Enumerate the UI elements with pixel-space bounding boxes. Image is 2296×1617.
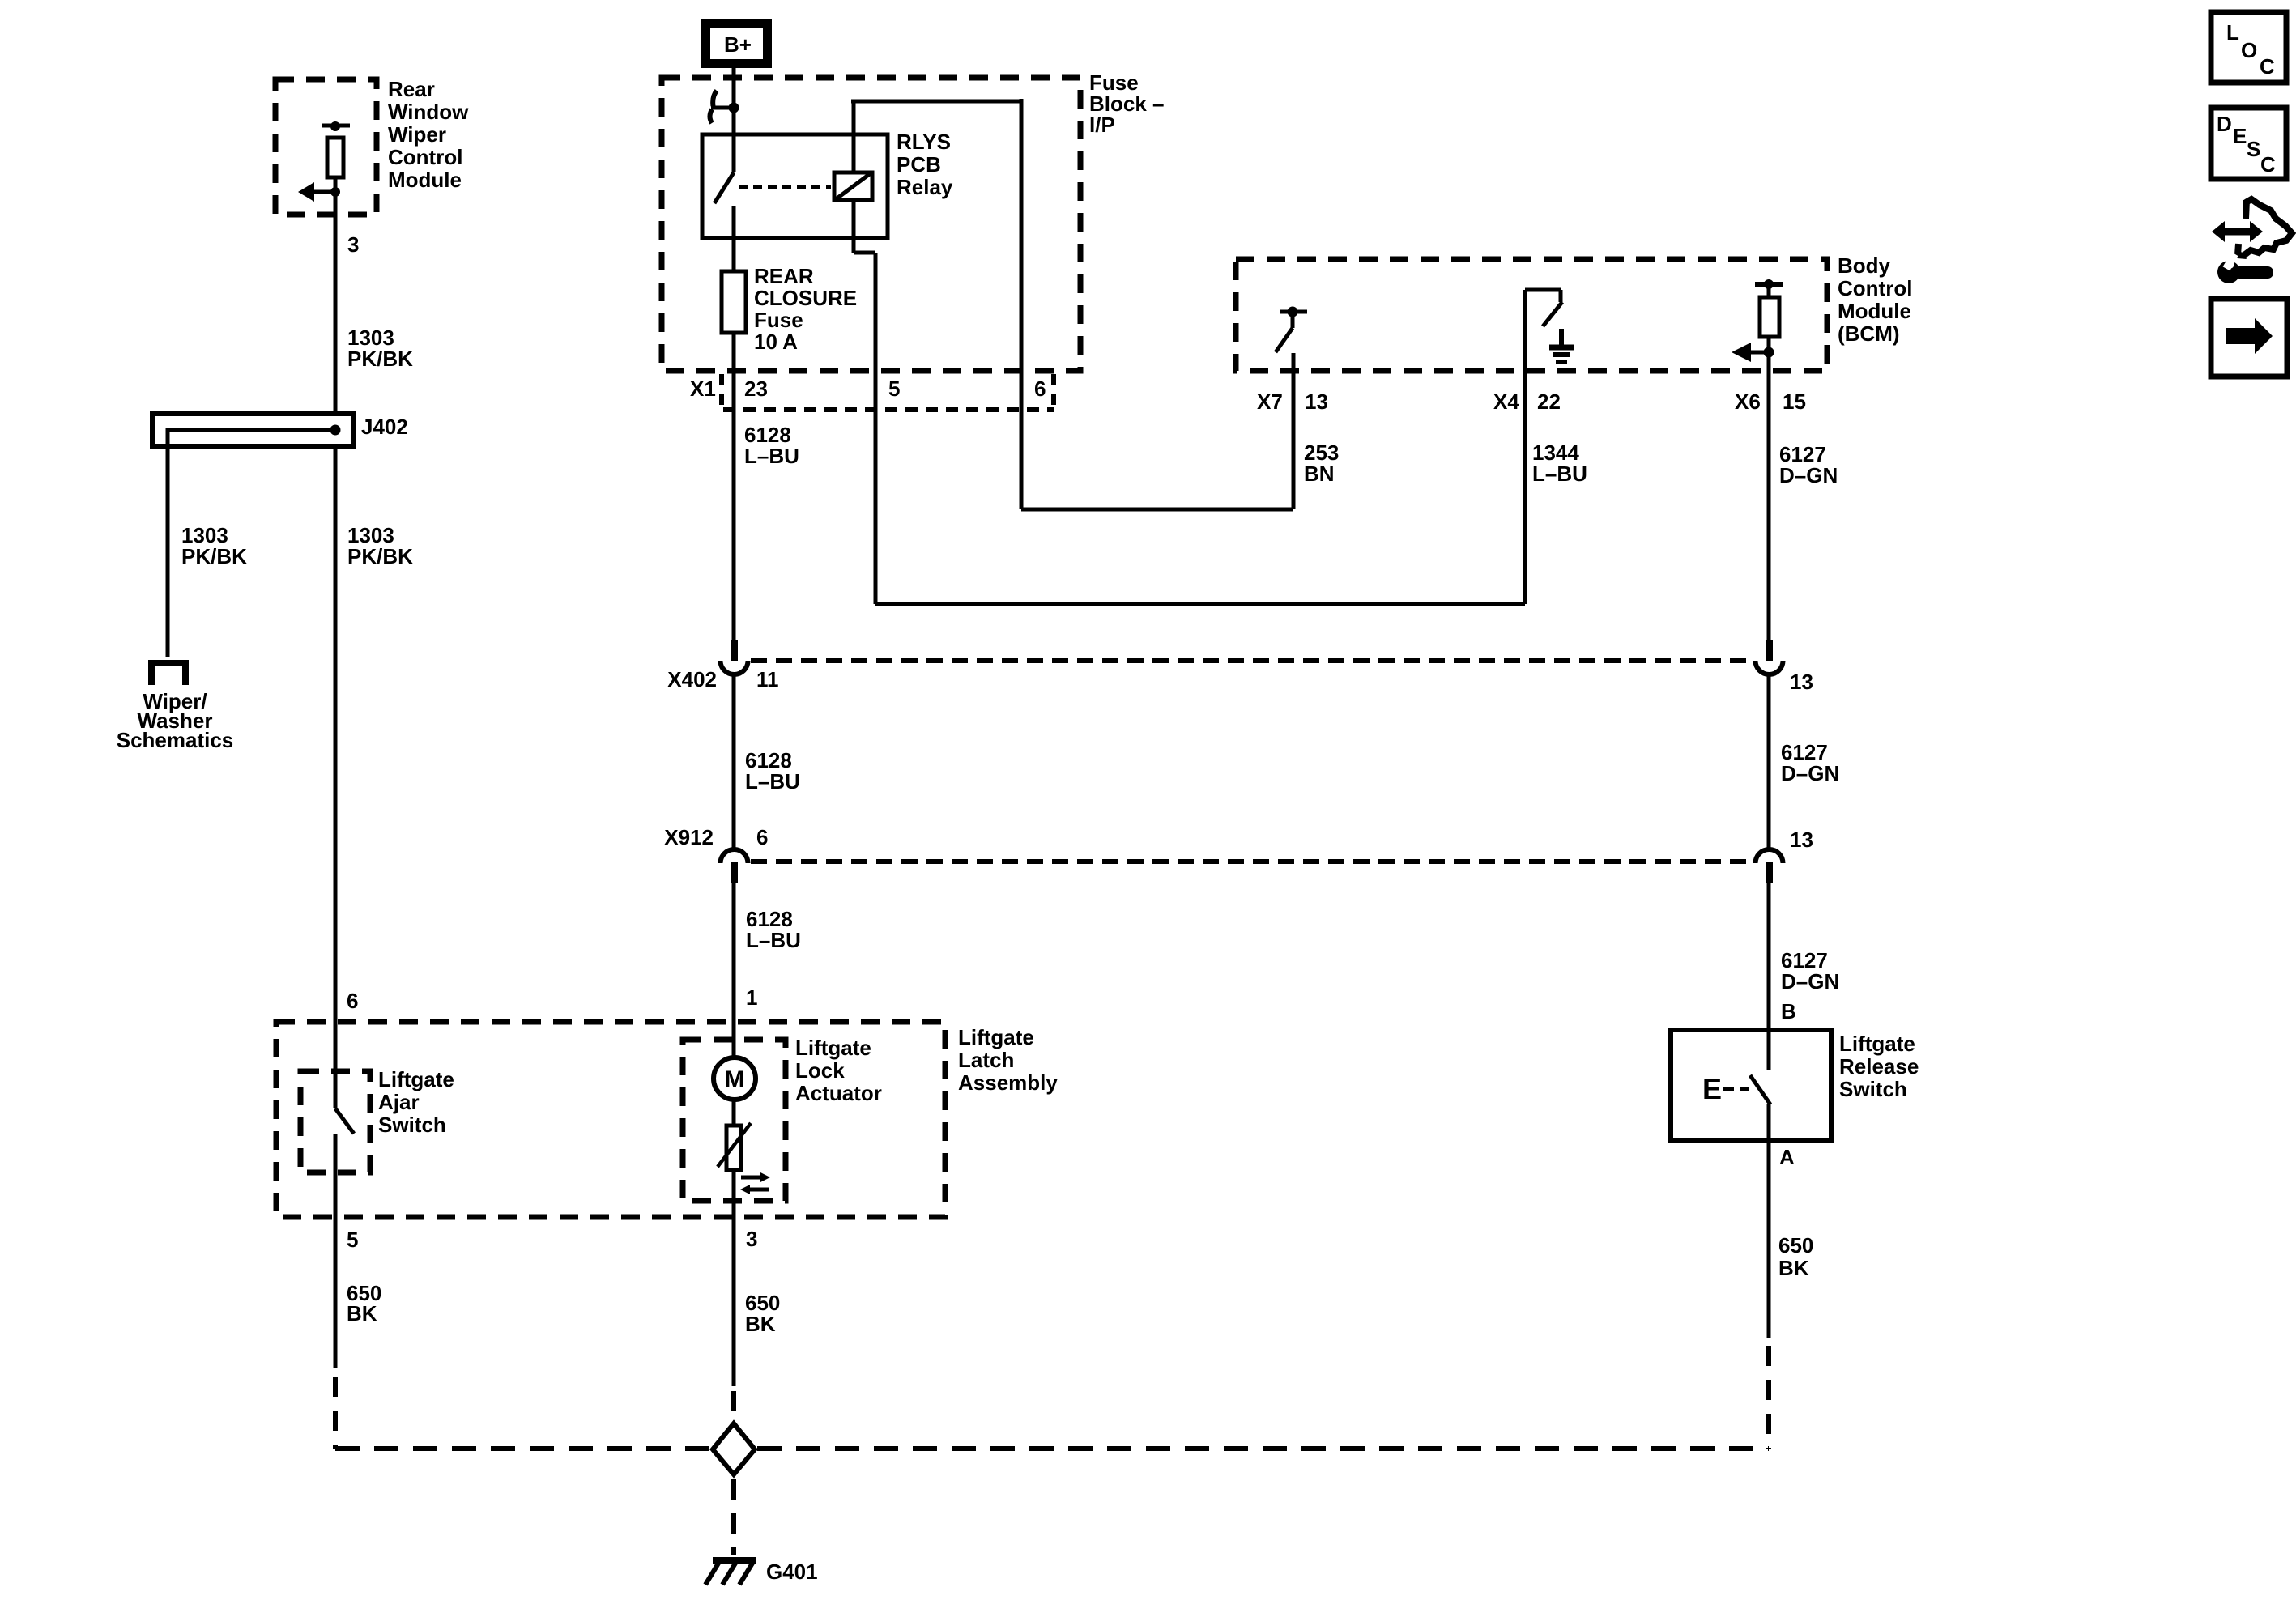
svg-text:Liftgate: Liftgate	[378, 1067, 454, 1091]
svg-text:Wiper: Wiper	[388, 122, 446, 147]
BCM internal ground	[1549, 329, 1574, 362]
svg-text:C: C	[2260, 152, 2276, 177]
svg-text:(BCM): (BCM)	[1838, 321, 1900, 346]
svg-text:E: E	[2233, 124, 2247, 148]
svg-text:X6: X6	[1735, 389, 1761, 414]
wire coil to pin 5	[854, 200, 875, 604]
relay RLYS PCB outline box	[702, 134, 888, 238]
wire pin5 to X4 link	[875, 602, 1525, 606]
wiper module resistor	[322, 121, 350, 192]
svg-text:10 A: 10 A	[754, 330, 798, 354]
label Liftgate Ajar Switch	[378, 1067, 454, 1137]
svg-text:Liftgate: Liftgate	[795, 1036, 871, 1060]
svg-text:D–GN: D–GN	[1781, 761, 1839, 785]
wire X402 to X912	[732, 674, 736, 849]
svg-text:Switch: Switch	[1839, 1077, 1907, 1101]
splice dashed row	[335, 1446, 1769, 1451]
svg-text:PK/BK: PK/BK	[347, 544, 413, 568]
label RLYS PCB Relay	[897, 130, 953, 199]
body control module dashed box	[1236, 259, 1827, 371]
svg-text:13: 13	[1305, 389, 1328, 414]
wire label 650 BK right	[1778, 1233, 1813, 1280]
svg-text:L–BU: L–BU	[744, 444, 799, 468]
wire label 650 BK left	[347, 1281, 381, 1326]
wire label 1303 PK/BK upper	[347, 326, 413, 371]
wire right branch X402row to X912row	[1767, 674, 1771, 849]
svg-text:D: D	[2217, 112, 2232, 136]
BCM switch at X7	[1276, 307, 1307, 510]
svg-text:O: O	[2241, 38, 2257, 62]
svg-text:3: 3	[746, 1227, 757, 1251]
svg-text:X4: X4	[1493, 389, 1519, 414]
svg-text:RLYS: RLYS	[897, 130, 951, 154]
release switch E actuator	[1702, 1072, 1749, 1105]
svg-text:X402: X402	[667, 667, 717, 691]
liftgate lock actuator dashed box	[683, 1040, 786, 1201]
svg-text:L–BU: L–BU	[1532, 462, 1587, 486]
actuator output wire	[732, 1170, 736, 1386]
svg-text:REAR: REAR	[754, 264, 814, 288]
connector X912 right 13	[1756, 828, 1813, 883]
svg-text:BK: BK	[347, 1301, 377, 1326]
svg-text:G401: G401	[766, 1560, 818, 1584]
icon LOC	[2211, 12, 2286, 83]
connector X912 left	[664, 825, 768, 883]
splice diamond	[713, 1423, 755, 1474]
wire label 1303 PK/BK left	[181, 523, 247, 568]
svg-text:I/P: I/P	[1089, 113, 1115, 137]
dashed wire left to splice row	[333, 1377, 338, 1449]
svg-text:Relay: Relay	[897, 175, 953, 199]
wire label 6127 D-GN upper	[1779, 442, 1838, 487]
BCM pin labels	[1257, 389, 1806, 414]
wire label 6128 L-BU lower	[746, 907, 801, 952]
BCM switch to ground at X4	[1525, 290, 1562, 604]
svg-text:D–GN: D–GN	[1779, 463, 1838, 487]
svg-text:X7: X7	[1257, 389, 1283, 414]
svg-text:Fuse: Fuse	[754, 308, 803, 332]
svg-text:BK: BK	[745, 1312, 776, 1336]
icon continue arrow	[2211, 299, 2287, 377]
svg-text:5: 5	[888, 377, 900, 401]
circuit breaker symbol	[710, 91, 739, 123]
liftgate latch assembly dashed box	[276, 1022, 945, 1217]
label Liftgate Release Switch	[1839, 1032, 1919, 1101]
BCM resistor at X6	[1755, 279, 1783, 352]
BCM output arrow at X6	[1732, 343, 1774, 640]
svg-text:Lock: Lock	[795, 1058, 845, 1083]
motor to resistor wire	[732, 1100, 736, 1126]
svg-text:PK/BK: PK/BK	[347, 347, 413, 371]
dashed wire center to splice	[731, 1391, 736, 1419]
svg-text:BK: BK	[1778, 1256, 1809, 1280]
ground G401	[705, 1560, 818, 1585]
svg-text:13: 13	[1790, 828, 1813, 852]
wire label 6128 L-BU upper	[744, 423, 799, 468]
fuse block I/P dashed box	[662, 78, 1080, 371]
wire label 6128 L-BU middle	[745, 748, 800, 794]
svg-text:CLOSURE: CLOSURE	[754, 286, 857, 310]
svg-text:Body: Body	[1838, 253, 1891, 278]
dashed wire splice to ground	[731, 1479, 736, 1555]
wire release switch down	[1767, 1140, 1771, 1338]
wire fuse to X402	[732, 333, 736, 642]
svg-text:Latch: Latch	[958, 1048, 1014, 1072]
svg-text:B: B	[1781, 999, 1796, 1023]
svg-text:6: 6	[347, 989, 358, 1013]
connector X402 left	[667, 640, 778, 691]
svg-text:Window: Window	[388, 100, 469, 124]
connector X1 row	[690, 374, 1054, 410]
wire pin6 to X7 link	[1021, 508, 1293, 512]
label Rear Window Wiper Control Module	[388, 77, 469, 192]
off page terminal wiper washer	[151, 663, 185, 685]
svg-text:Ajar: Ajar	[378, 1090, 420, 1114]
svg-text:6: 6	[1034, 377, 1046, 401]
svg-text:L–BU: L–BU	[745, 769, 800, 794]
svg-text:Schematics: Schematics	[117, 728, 234, 752]
label Wiper Washer Schematics	[117, 689, 234, 752]
svg-text:3: 3	[347, 232, 359, 257]
svg-text:Module: Module	[388, 168, 462, 192]
wire label 650 BK center	[745, 1291, 780, 1336]
svg-text:L–BU: L–BU	[746, 928, 801, 952]
wire coil to pin 6	[851, 99, 1021, 509]
svg-text:22: 22	[1537, 389, 1561, 414]
wire label 6127 D-GN lower	[1781, 948, 1839, 994]
svg-text:PCB: PCB	[897, 152, 941, 177]
icon DESC	[2211, 108, 2286, 179]
svg-text:Actuator: Actuator	[795, 1081, 882, 1105]
svg-text:B+: B+	[724, 32, 752, 57]
svg-text:Assembly: Assembly	[958, 1070, 1058, 1095]
svg-text:BN: BN	[1304, 462, 1335, 486]
label Body Control Module (BCM)	[1838, 253, 1912, 346]
battery terminal B+	[706, 23, 768, 64]
wiper module arrow	[298, 182, 340, 202]
label Liftgate Latch Assembly	[958, 1025, 1058, 1095]
actuator thermal resistor	[718, 1123, 751, 1170]
svg-text:5: 5	[347, 1228, 358, 1252]
liftgate release switch box	[1671, 1030, 1831, 1140]
svg-text:Module: Module	[1838, 299, 1911, 323]
dashed row X402	[751, 658, 1753, 663]
svg-text:J402: J402	[361, 415, 408, 439]
double arrows	[740, 1172, 770, 1194]
svg-text:E: E	[1702, 1072, 1722, 1105]
svg-text:Liftgate: Liftgate	[958, 1025, 1034, 1049]
liftgate ajar switch dashed box	[300, 1071, 370, 1172]
motor M	[714, 1057, 756, 1100]
svg-text:C: C	[2260, 54, 2275, 79]
icon harness repair	[2212, 199, 2292, 283]
svg-text:Liftgate: Liftgate	[1839, 1032, 1915, 1056]
wire J402 down left branch	[334, 446, 338, 1108]
svg-text:Control: Control	[1838, 276, 1912, 300]
relay actuation dashed link	[739, 185, 831, 189]
wire X912 to motor	[732, 883, 736, 1057]
svg-text:6: 6	[756, 825, 768, 849]
svg-text:X1: X1	[690, 377, 716, 401]
svg-text:A: A	[1779, 1145, 1795, 1169]
svg-text:13: 13	[1790, 670, 1813, 694]
splice pack J402	[152, 414, 408, 657]
label REAR CLOSURE Fuse 10 A	[754, 264, 857, 354]
svg-text:Control: Control	[388, 145, 462, 169]
relay coil	[834, 172, 872, 200]
svg-text:Switch: Switch	[378, 1113, 446, 1137]
dashed row X912	[751, 859, 1753, 864]
wire label 1344 L-BU	[1532, 440, 1587, 486]
svg-text:11: 11	[756, 667, 779, 691]
svg-text:Release: Release	[1839, 1054, 1919, 1079]
svg-text:D–GN: D–GN	[1781, 969, 1839, 994]
release switch blade	[1750, 1075, 1770, 1140]
svg-text:15: 15	[1783, 389, 1806, 414]
relay switch	[714, 108, 734, 271]
svg-text:L: L	[2226, 20, 2239, 45]
wire label 6127 D-GN middle	[1781, 740, 1839, 785]
svg-text:M: M	[725, 1066, 745, 1093]
wire label 1303 PK/BK right	[347, 523, 413, 568]
ajar switch blade	[335, 1108, 354, 1368]
svg-text:650: 650	[1778, 1233, 1813, 1257]
wire right branch X912row to release switch	[1767, 883, 1771, 1070]
svg-text:X912: X912	[664, 825, 714, 849]
svg-text:23: 23	[744, 377, 768, 401]
wire label 253 BN	[1304, 440, 1339, 486]
wire wiper module to J402	[334, 192, 338, 414]
rear window wiper control module dashed box	[275, 79, 377, 215]
fuse REAR CLOSURE 10A	[722, 271, 746, 333]
svg-text:Rear: Rear	[388, 77, 435, 101]
dashed wire right to splice row	[1766, 1346, 1771, 1449]
wire B+ to circuit breaker	[732, 68, 736, 108]
label Fuse Block I/P	[1089, 70, 1165, 137]
svg-text:1: 1	[746, 985, 757, 1010]
connector X402 right 13	[1756, 640, 1813, 694]
label Liftgate Lock Actuator	[795, 1036, 882, 1105]
svg-text:PK/BK: PK/BK	[181, 544, 247, 568]
svg-text:S: S	[2247, 137, 2260, 161]
